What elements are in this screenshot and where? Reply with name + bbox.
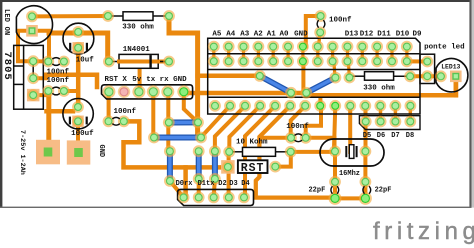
jumper wire JV1 (blue vertical) [167, 151, 173, 181]
serial header connector outline [102, 85, 193, 99]
svg-text:10uf: 10uf [76, 56, 95, 64]
wire 10Kohm to crystal pin1 [291, 150, 335, 154]
svg-text:A3: A3 [240, 30, 250, 38]
pad jumper J2 left [148, 132, 160, 144]
pad C8 22pf top [329, 176, 341, 188]
pad ponte led pin1 [421, 56, 433, 68]
wire thick 7805 ground pin to power terminal [46, 95, 51, 141]
svg-text:GND: GND [173, 76, 187, 84]
wire 100nf C7 to crystal pin1 [306, 138, 335, 152]
regulator U1 7805 outline [14, 45, 44, 109]
capacitor C7 symbol [295, 134, 303, 142]
crystal Y1 symbol [345, 146, 347, 157]
wire serial tx down to jumper J2 [151, 92, 155, 138]
svg-text:A2: A2 [254, 30, 264, 38]
svg-text:D3: D3 [229, 180, 237, 188]
wire LED ON cathode to 7805 input [18, 31, 33, 61]
jumper wire JV2 (blue vertical) [196, 151, 202, 179]
wire LED pad to rail junction [36, 31, 49, 62]
pad jumper J2 right [195, 132, 207, 144]
top header pads row1 and row2 [208, 41, 220, 53]
pad C2 10uf minus [72, 42, 84, 54]
pad LED13 anode [435, 70, 447, 82]
wire header col diagonal to D4 pad [245, 106, 275, 198]
wire header col diagonal to jumper J2 right pad [201, 106, 230, 137]
resistor R1 330ohm body [108, 15, 123, 17]
pad jumper J3 left [254, 70, 266, 82]
diode D1 cathode band [149, 55, 151, 68]
wire 100nf C4 to vertical rail [64, 89, 78, 93]
pad serial X (pink) [118, 86, 130, 98]
wire header row to jumper J3 [198, 74, 260, 79]
pad serial GND [177, 85, 190, 98]
ponte led header outline [420, 54, 435, 83]
jumper wire J3 (blue diagonal) [260, 76, 291, 93]
pad D1 anode [103, 56, 115, 68]
resistor R2 330ohm body [349, 75, 364, 77]
pad C3 100nf top [315, 10, 327, 22]
svg-text:5v: 5v [132, 76, 142, 84]
svg-text:100nf: 100nf [114, 108, 137, 116]
pad jumper J4 right [330, 72, 342, 84]
wire header pad to 100nf C7 [306, 106, 321, 138]
pad R1 right [163, 10, 175, 22]
RST button outline [238, 160, 268, 173]
svg-text:A0: A0 [279, 30, 289, 38]
wire header col diagonal to 100nf C7 [291, 106, 306, 138]
pad crystal pin1 [329, 145, 341, 157]
wire 7805 pin3 stub [33, 93, 49, 97]
svg-text:RST: RST [104, 76, 118, 84]
wire 22pf gnd link [335, 196, 365, 200]
capacitor C6 symbol [112, 117, 120, 125]
wire branch down to D0rx pad [183, 167, 188, 197]
jumper wire J2 (blue) [154, 135, 201, 141]
pad R3 right [285, 146, 297, 158]
svg-text:100nf: 100nf [329, 17, 352, 25]
svg-text:LED13: LED13 [441, 64, 460, 71]
wire D7 pin link [394, 107, 397, 122]
svg-text:D11: D11 [377, 30, 391, 38]
resistor R3 10Kohm body [229, 151, 242, 153]
pad LED ON anode [26, 11, 38, 23]
jumper wire J4 (blue diagonal) [306, 78, 335, 93]
svg-text:7-25v 1-2Ah: 7-25v 1-2Ah [18, 130, 26, 175]
pad R2 input [344, 72, 356, 84]
svg-text:rx: rx [160, 76, 170, 84]
wire 100uf C5 negative to GND terminal [76, 121, 80, 141]
capacitor C9 symbol [363, 186, 371, 194]
polarity bars C5 [69, 117, 71, 125]
pad R2 output [404, 70, 416, 82]
pad 7805 pin1 [27, 55, 39, 67]
wire crystal pin1 to 22pf C8 [333, 151, 337, 198]
pad jumper JV3 bottom [209, 173, 221, 185]
svg-text:22pF: 22pF [375, 187, 392, 195]
wire D6 pin link [379, 107, 382, 122]
arduino module outline with header strips [208, 38, 420, 114]
capacitor C1 symbol [52, 58, 60, 66]
pad C8 22pf bottom [329, 192, 342, 205]
wire through diode body [119, 60, 158, 64]
wire jumper J4 pad link up [334, 61, 335, 77]
pad D1 cathode [163, 56, 175, 68]
jumper wire JV3 (blue vertical) [212, 151, 218, 179]
svg-text:A1: A1 [267, 30, 277, 38]
pad C1 100nf left [42, 56, 54, 68]
wire 10uf C2 negative down to 100uf C5 [76, 48, 81, 107]
svg-text:100nf: 100nf [286, 123, 309, 131]
LED ON body outline [16, 6, 52, 44]
wire serial rx down to vertical jumper JV1 [166, 95, 170, 151]
pad jumper JV2 top [193, 145, 205, 157]
pad serial tx [147, 85, 160, 98]
pad C3 100nf bottom [314, 27, 326, 39]
svg-text:D7: D7 [391, 132, 399, 140]
pad 7805 pin3 [27, 89, 39, 101]
wire header pin links top rows [212, 47, 215, 62]
pad C9 22pf bottom [359, 192, 372, 205]
pad R1 left [102, 10, 114, 22]
pad C6 100nf right [118, 115, 130, 127]
wire 7805 pin2 to cap rail [33, 75, 46, 78]
pad ponte led pin2 [421, 70, 433, 82]
pad RST net square [221, 160, 235, 174]
svg-text:D1tx: D1tx [198, 180, 216, 188]
wire D8 pin link [409, 107, 412, 122]
wire RST button pad to 10Kohm [275, 152, 291, 167]
wire 100nf C3 lower pad to header [318, 32, 320, 46]
pad 7805 pin2 [27, 72, 39, 84]
pad jumper JV2 bottom [193, 173, 205, 185]
svg-text:D12: D12 [360, 30, 374, 38]
LED13 body outline [436, 58, 468, 91]
pad LED ON cathode (square) [26, 25, 38, 37]
pad 7805 pin3 square [27, 89, 40, 102]
pad C2 10uf plus [72, 26, 84, 38]
pad serial 5v [132, 85, 145, 98]
wire cap rail to serial header [46, 75, 97, 87]
pad jumper JV1 top [164, 145, 176, 157]
svg-text:D2: D2 [218, 180, 226, 188]
pad jumper J1 left [163, 117, 175, 129]
pad jumper JV1 bottom [164, 175, 176, 187]
svg-text:GND: GND [294, 30, 308, 38]
pad C9 22pf top [360, 176, 372, 188]
pad jumper J4 left [300, 87, 312, 99]
wire 330ohm R1 output to header via thick trace [169, 16, 201, 138]
svg-text:X: X [122, 76, 127, 84]
wire header col diagonal to 10Kohm resistor [229, 106, 260, 148]
pad LED13 cathode (square) [450, 71, 462, 83]
wire thick 5V rail from LED to diode D1 anode [49, 33, 108, 62]
power terminal pad GND [67, 140, 91, 164]
svg-text:D0rx: D0rx [176, 180, 194, 188]
svg-text:LED ON: LED ON [2, 9, 10, 35]
wire header col into crystal body [348, 106, 352, 152]
svg-text:100nf: 100nf [47, 69, 70, 77]
wire header D-col diagonal down to 22pf gnd row [256, 106, 335, 198]
svg-text:D5: D5 [363, 132, 371, 140]
svg-text:16Mhz: 16Mhz [339, 170, 360, 178]
wire serial RST pad down to 100nf C6 [107, 92, 111, 122]
svg-text:A4: A4 [226, 30, 236, 38]
svg-text:330 ohm: 330 ohm [122, 23, 154, 31]
lower header pads row [209, 100, 221, 112]
svg-text:fritzing: fritzing [373, 218, 474, 245]
wire horizontal gnd run right to LED13 [306, 77, 456, 95]
jumper wire J1 (blue) [169, 119, 198, 125]
wire jumper JV1 to D0rx pad [170, 181, 184, 198]
wire header col diagonal to vertical jumper JV3 [215, 106, 245, 151]
svg-text:D13: D13 [345, 30, 359, 38]
svg-text:10 Kohm: 10 Kohm [236, 138, 268, 146]
svg-text:7805: 7805 [1, 52, 13, 81]
wire gnd run to header bright pad [318, 95, 322, 106]
D0-D4 header outline [178, 189, 254, 205]
pad C5 100uf plus [72, 101, 84, 113]
wire R2 output to ponte led pin2 and LED13 [410, 74, 441, 78]
pad C4 100nf right [58, 85, 70, 97]
D5-D8 header outline [359, 116, 420, 130]
wire LED ON anode to resistor R1 [36, 14, 108, 18]
capacitor C3 symbol [317, 20, 325, 28]
capacitor C2 10uf outline [63, 23, 94, 54]
svg-text:GND: GND [97, 145, 105, 158]
svg-text:1N4001: 1N4001 [123, 46, 151, 54]
crystal Y1 16Mhz outline [320, 139, 384, 166]
wire horizontal gnd run left [186, 91, 306, 96]
wire 100nf C7 left pad run [262, 136, 292, 140]
svg-text:22pF: 22pF [308, 187, 325, 195]
wire crystal pin2 to 22pf C9 [363, 151, 367, 198]
svg-text:D6: D6 [377, 132, 385, 140]
pad 100uf minus square [72, 116, 84, 128]
svg-text:100uf: 100uf [71, 130, 94, 138]
D5-D8 header pads [360, 116, 372, 128]
power terminal pad + [36, 140, 60, 165]
svg-text:RST: RST [241, 162, 265, 175]
pad C5 100uf minus [72, 115, 84, 127]
wire 7805 output branch to 100uf area [47, 109, 74, 114]
D0-D4 header pads [178, 192, 190, 204]
svg-text:tx: tx [146, 76, 156, 84]
pad RST button right [269, 161, 281, 173]
svg-text:D8: D8 [406, 132, 414, 140]
wire LED13 cathode down to gnd run [454, 76, 459, 95]
wire diode D1 cathode to serial 5v pad [140, 62, 169, 92]
svg-text:D10: D10 [396, 30, 410, 38]
capacitor C4 symbol [52, 87, 60, 95]
pad jumper J3 right [285, 87, 297, 99]
svg-text:100nf: 100nf [47, 77, 70, 85]
wire jumper JV2 to D1tx pad [197, 179, 201, 198]
wire header D9 to ponte led pin1 [407, 59, 427, 63]
svg-text:330 ohm: 330 ohm [363, 85, 395, 93]
pad R3 left [223, 146, 235, 158]
wire header GND column down [301, 61, 305, 93]
pad 10uf minus square [72, 42, 84, 54]
wire 7805 pin1 to 100nf C1 [33, 59, 48, 63]
capacitor C5 100uf outline [63, 99, 93, 129]
diode D1 1N4001 body [109, 61, 119, 63]
pad C7 100nf left [285, 132, 297, 144]
wire jumper JV3 to D2 pad [214, 179, 215, 198]
pad jumper JV3 top [209, 145, 221, 157]
svg-text:A5: A5 [212, 30, 222, 38]
pad C1 100nf right [58, 56, 70, 68]
pad serial RST [102, 85, 115, 98]
wire serial GND diagonal to jumper J1 [184, 92, 198, 123]
polarity bars C2 [69, 43, 71, 51]
pad C4 100nf left [42, 85, 54, 97]
svg-text:ponte led: ponte led [424, 43, 465, 51]
wire RST pad to D3 pad [227, 152, 231, 197]
pad serial rx [161, 85, 174, 98]
pad C6 100nf left [103, 115, 115, 127]
wire header col through D5 to crystal pin2 [364, 107, 368, 151]
pad crystal pin2 [360, 145, 372, 157]
wire resistor R2 pad link up [348, 61, 349, 77]
pad jumper J1 right [192, 117, 204, 129]
canvas border [0, 0, 474, 2]
svg-text:D9: D9 [412, 30, 422, 38]
wire 100nf C6 to RST square pad (zigzag) [124, 121, 225, 167]
wire 100nf C3 to GND column [306, 16, 321, 47]
wire header col to crystal pin1 [334, 106, 335, 152]
pad C7 100nf right [300, 132, 312, 144]
capacitor C8 symbol [331, 186, 339, 194]
svg-text:D4: D4 [241, 180, 249, 188]
